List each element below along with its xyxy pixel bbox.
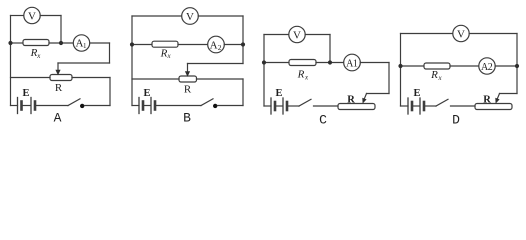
wire: A bottom row to battery xyxy=(11,105,18,107)
svg-text:V: V xyxy=(186,11,194,23)
wire: B switch to right rail xyxy=(218,105,244,107)
wire: C switch to rheostat xyxy=(314,105,339,107)
wire: B top row to voltmeter xyxy=(132,15,182,17)
svg-text:V: V xyxy=(28,10,36,22)
wire: A top row to voltmeter xyxy=(11,15,24,17)
junction dot B right rail Rx row xyxy=(241,42,245,46)
ammeter A2 (circuit B) xyxy=(208,36,225,53)
junction dot C Rx/ammeter node xyxy=(328,60,332,64)
svg-text:A2: A2 xyxy=(481,62,493,73)
svg-text:A1: A1 xyxy=(346,58,358,69)
wire: C Rx row left segment xyxy=(264,62,289,64)
junction dot D right rail Rx row xyxy=(515,64,519,68)
rheostat R (circuit C) xyxy=(338,104,375,110)
resistor Rx (circuit D) xyxy=(424,63,450,69)
wire: A right vertical rheostat row to bottom xyxy=(109,78,111,106)
voltmeter V (circuit C) xyxy=(289,26,305,42)
rheostat R (circuit D) xyxy=(475,104,512,110)
svg-text:E: E xyxy=(275,88,282,99)
wire: D top row from voltmeter to right rail xyxy=(469,33,517,35)
wire: A switch to right rail xyxy=(85,105,111,107)
wire: D Rx row left segment xyxy=(401,65,425,67)
arrowhead D slider xyxy=(495,98,499,104)
wire: C Rx row right segment xyxy=(360,62,389,64)
svg-text:V: V xyxy=(293,29,301,41)
svg-text:R: R xyxy=(55,82,63,94)
wire: A step wire to rheostat slider xyxy=(58,62,110,64)
wire: B Rx row left segment xyxy=(132,44,152,46)
wire: D switch to rheostat xyxy=(451,105,476,107)
wire: A rheostat row left segment xyxy=(11,77,51,79)
wire: B Rx row right segment xyxy=(224,44,243,46)
ammeter A1 (circuit A) xyxy=(73,35,89,51)
arrowhead B slider xyxy=(185,71,190,77)
wire: B top row from voltmeter to right rail xyxy=(198,15,243,17)
svg-text:R: R xyxy=(483,95,491,106)
wire: A left rail xyxy=(10,16,12,106)
wire: A slider arrow stem xyxy=(57,63,59,71)
junction dot D left Rx row xyxy=(398,64,402,68)
wire: D step wire to rheostat slider xyxy=(500,93,518,95)
wire: D Rx row middle segment xyxy=(450,65,479,67)
svg-text:B: B xyxy=(183,111,191,126)
svg-text:D: D xyxy=(452,113,460,128)
wire: B right rail from ammeter row down to step xyxy=(242,45,244,64)
wire: A Rx row middle segment xyxy=(49,42,73,44)
battery E (circuit B) xyxy=(139,98,155,114)
wire: D bottom row to battery xyxy=(401,105,409,107)
svg-text:E: E xyxy=(143,88,150,99)
arrowhead A slider xyxy=(55,70,60,76)
wire: A top row from voltmeter to drop xyxy=(40,15,61,17)
svg-text:R: R xyxy=(184,84,192,96)
voltmeter V (circuit A) xyxy=(24,7,40,23)
junction dot C left Rx row xyxy=(262,60,266,64)
svg-text:1: 1 xyxy=(83,42,87,50)
wire: B Rx row middle segment xyxy=(178,44,208,46)
svg-text:A: A xyxy=(54,111,62,126)
svg-text:x: x xyxy=(437,74,442,82)
switch S (circuit D) xyxy=(436,99,448,106)
wire: C bottom row to battery xyxy=(264,105,271,107)
arrowhead C slider xyxy=(362,98,366,104)
wire: D Rx row right segment xyxy=(495,65,517,67)
svg-text:V: V xyxy=(457,28,465,40)
wire: B step wire to rheostat slider xyxy=(188,63,244,65)
wire: B left rail xyxy=(131,16,133,106)
svg-text:x: x xyxy=(304,74,309,82)
voltmeter V (circuit D) xyxy=(453,25,469,41)
wire: B rheostat row left segment xyxy=(132,78,179,80)
rheostat R (circuit B) xyxy=(179,76,197,82)
switch contact dot (circuit A) xyxy=(80,104,84,108)
junction dot A Rx/ammeter node xyxy=(59,41,63,45)
svg-text:R: R xyxy=(347,95,355,106)
voltmeter V (circuit B) xyxy=(182,8,199,25)
wire: C Rx row middle segment xyxy=(316,62,344,64)
junction dot B left Rx row xyxy=(130,42,134,46)
wire: D left rail xyxy=(400,34,402,107)
ammeter A2 (circuit D) xyxy=(479,58,495,74)
wire: A rheostat row right segment xyxy=(72,77,110,79)
wire: A vertical drop from top row to Rx row xyxy=(60,16,62,44)
svg-text:E: E xyxy=(413,88,420,99)
wire: C vertical drop from top row to Rx row xyxy=(329,35,331,63)
switch S (circuit A) xyxy=(68,99,80,106)
svg-text:x: x xyxy=(166,52,171,60)
resistor Rx (circuit C) xyxy=(289,60,316,66)
wire: A right vertical from ammeter row to step xyxy=(109,43,111,63)
wire: D battery to switch xyxy=(425,105,436,107)
wire: D right rail top section xyxy=(516,34,518,67)
wire: C top row to voltmeter xyxy=(264,34,289,36)
rheostat R (circuit A) xyxy=(50,75,72,81)
svg-text:R: R xyxy=(297,69,305,81)
wire: B battery to switch xyxy=(156,105,201,107)
resistor Rx (circuit B) xyxy=(152,41,178,47)
svg-text:x: x xyxy=(36,52,41,60)
wire: B rheostat row right segment xyxy=(197,78,244,80)
wire: A Rx row left segment xyxy=(11,42,24,44)
wire: C left rail xyxy=(263,35,265,107)
wire: C right rail down to step xyxy=(388,63,390,94)
svg-text:E: E xyxy=(22,88,29,99)
wire: C step wire to rheostat slider xyxy=(367,93,390,95)
svg-text:C: C xyxy=(319,113,327,128)
wire: D slider arrow diagonal stem xyxy=(497,94,500,100)
svg-text:R: R xyxy=(430,69,438,81)
svg-text:2: 2 xyxy=(218,43,222,52)
svg-text:R: R xyxy=(160,48,168,60)
wire: B slider arrow stem xyxy=(187,64,189,73)
switch S (circuit B) xyxy=(201,99,213,106)
svg-text:A: A xyxy=(210,39,218,51)
wire: B right rail top section xyxy=(242,16,244,45)
wire: D top row to voltmeter xyxy=(401,33,454,35)
wire: D right rail down to step xyxy=(516,66,518,94)
switch contact dot (circuit B) xyxy=(213,104,217,108)
battery E (circuit A) xyxy=(18,98,36,114)
wire: C slider arrow diagonal stem xyxy=(364,94,367,100)
wire: B right rail rheostat row to bottom xyxy=(242,79,244,106)
battery E (circuit D) xyxy=(408,98,424,114)
wire: A Rx row right segment xyxy=(90,42,110,44)
wire: A battery to switch xyxy=(36,105,68,107)
battery E (circuit C) xyxy=(271,98,287,114)
wire: B bottom row to battery xyxy=(132,105,139,107)
resistor Rx (circuit A) xyxy=(23,40,49,46)
wire: C battery to switch xyxy=(288,105,299,107)
junction dot A left Rx row xyxy=(8,41,12,45)
wire: C top row from voltmeter to drop xyxy=(305,34,330,36)
switch S (circuit C) xyxy=(299,99,311,106)
ammeter A1 (circuit C) xyxy=(344,54,361,71)
